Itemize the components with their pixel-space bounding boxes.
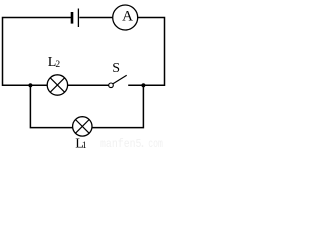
svg-text:1: 1 [82,141,87,150]
svg-text:A: A [122,9,133,25]
svg-text:2: 2 [55,60,60,70]
svg-text:.: . [139,137,146,150]
svg-text:S: S [112,61,120,76]
svg-text:com: com [148,137,163,150]
svg-text:manfen5: manfen5 [100,137,142,150]
